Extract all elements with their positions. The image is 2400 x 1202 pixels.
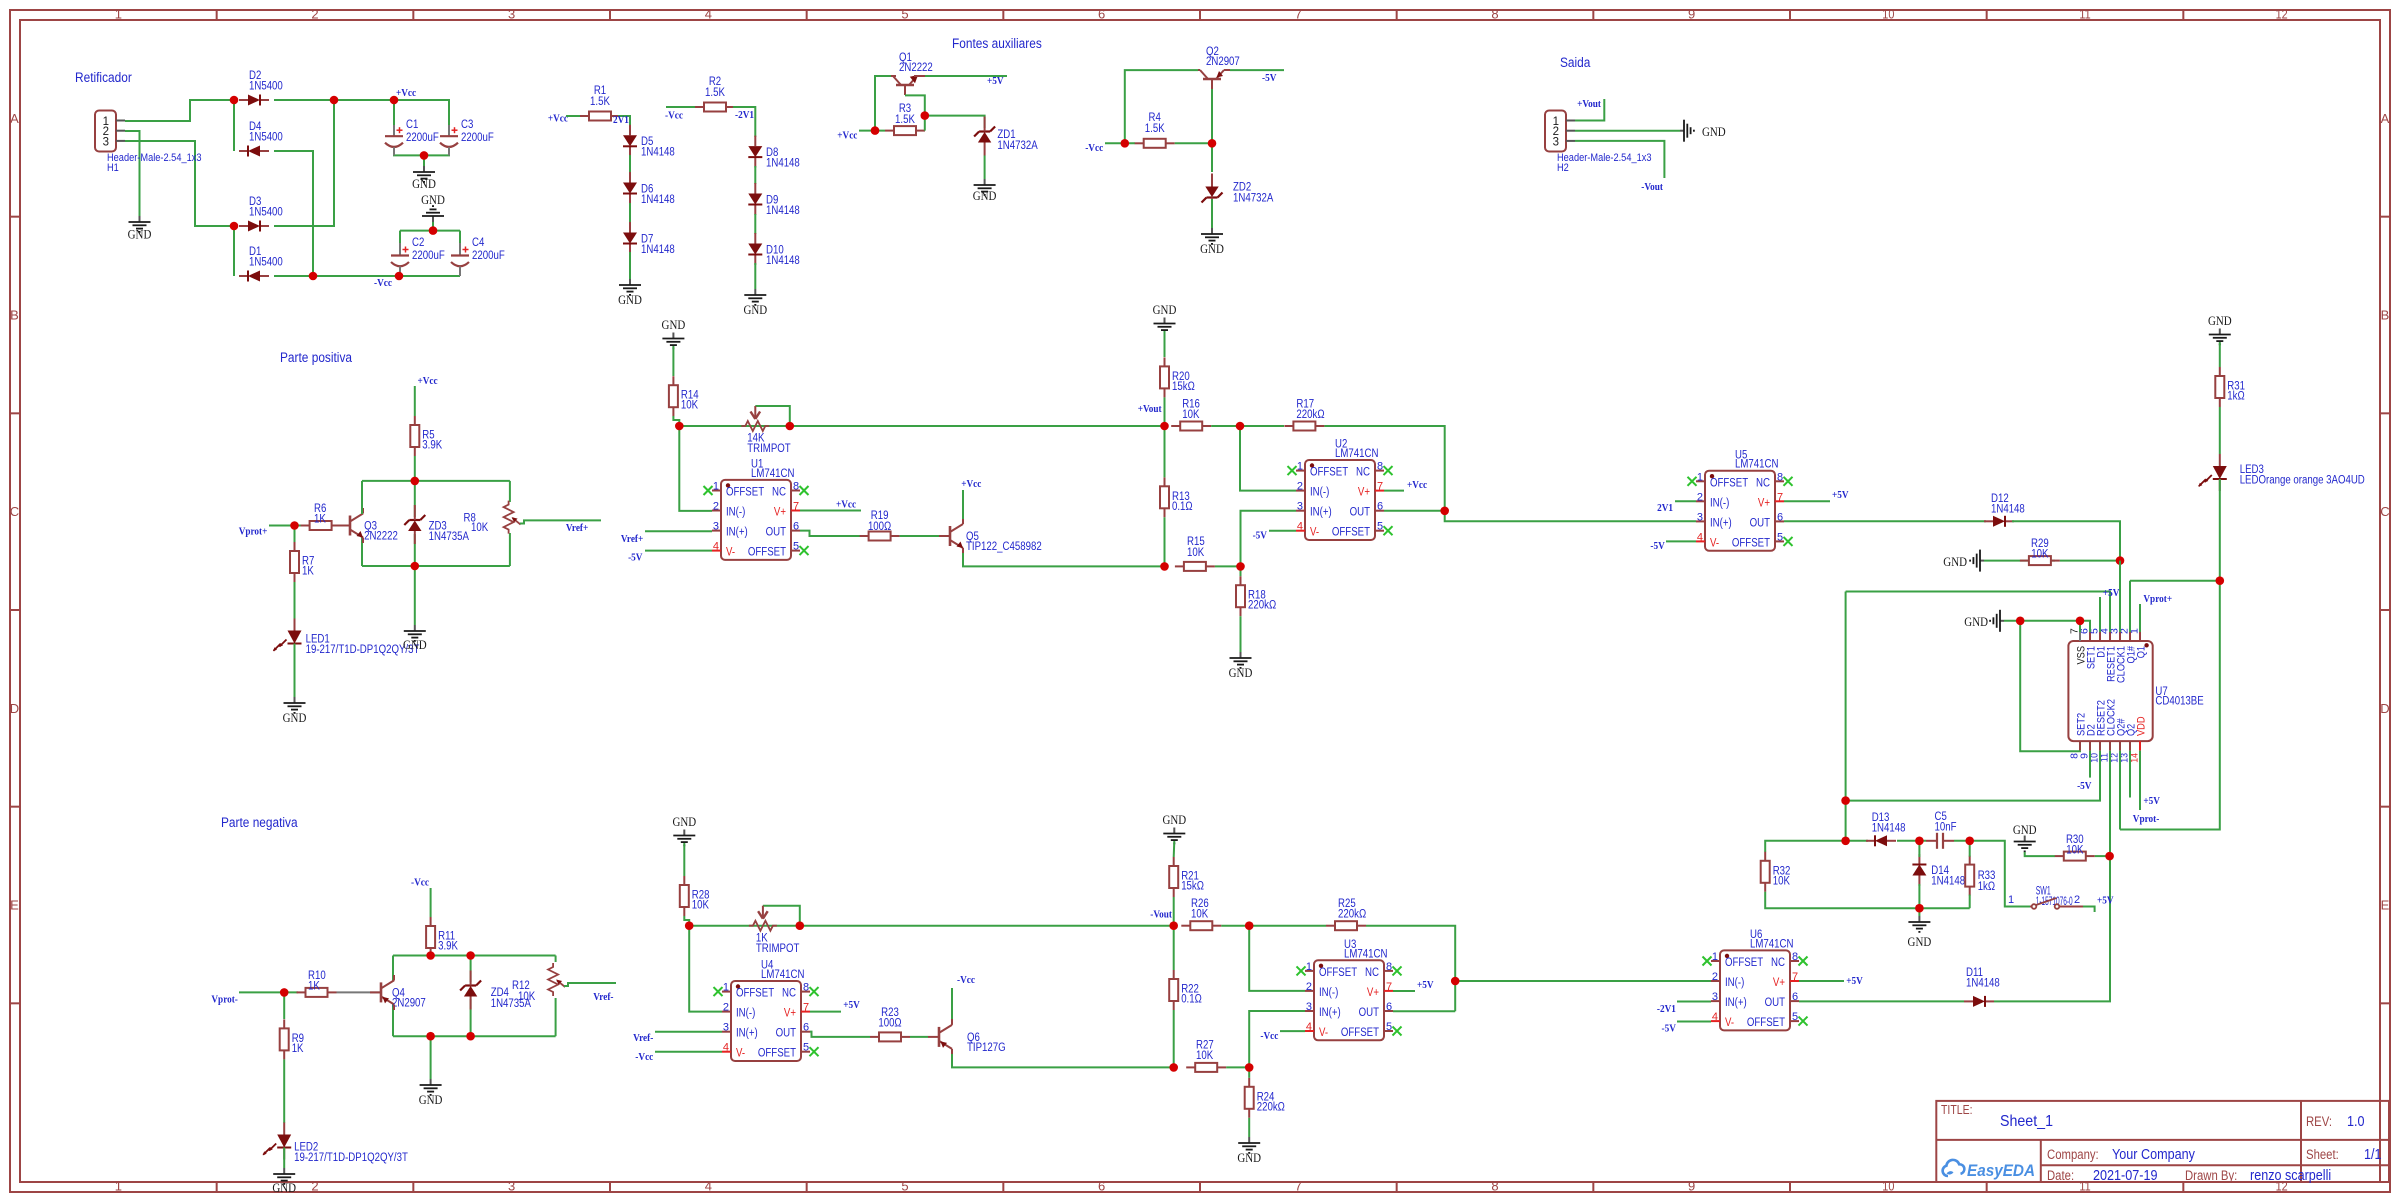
svg-text:2V1: 2V1 [613, 114, 629, 126]
diode D3 [239, 225, 248, 227]
wire H2 pin2 to GND [1575, 130, 1680, 132]
op-amp U6 [1720, 950, 1790, 1030]
svg-text:6: 6 [1792, 991, 1798, 1003]
wire R31 to LED3 [2219, 407, 2221, 454]
svg-text:GND: GND [743, 302, 767, 317]
svg-text:TITLE:: TITLE: [1941, 1103, 1973, 1117]
svg-text:-2V1: -2V1 [1657, 1003, 1676, 1015]
svg-text:CD4013BE: CD4013BE [2155, 696, 2204, 708]
svg-text:D: D [2380, 701, 2389, 716]
svg-text:1N5400: 1N5400 [249, 81, 283, 93]
resistor R23 [870, 1036, 879, 1038]
wire R15 right to R18 node [1215, 565, 1241, 567]
wire R13 legs [1164, 426, 1166, 477]
svg-text:-Vcc: -Vcc [1085, 142, 1103, 154]
bottom rail parte positiva [362, 565, 510, 567]
svg-text:B: B [2381, 308, 2390, 323]
svg-text:6: 6 [1098, 7, 1105, 22]
capacitor C1 [393, 125, 395, 136]
svg-text:2200uF: 2200uF [461, 132, 494, 144]
transistor Q4 [380, 982, 383, 1002]
diode D11 [1964, 1000, 1973, 1002]
svg-text:OUT: OUT [1350, 507, 1370, 519]
wire D3 anode to D1 cathode [233, 226, 235, 276]
svg-text:VDD: VDD [2136, 716, 2148, 736]
transistor Q2 [1203, 78, 1221, 81]
svg-text:1N4148: 1N4148 [766, 205, 800, 217]
svg-text:4: 4 [1297, 521, 1303, 533]
diode D9 [754, 183, 756, 194]
wire R18 legs [1240, 566, 1242, 576]
resistor R31 [2219, 367, 2221, 376]
svg-text:IN(+): IN(+) [736, 1028, 758, 1040]
junction dots U7 area [2076, 617, 2085, 626]
svg-text:V+: V+ [1367, 987, 1379, 999]
wire D1 anode to -Vcc rail [274, 275, 460, 277]
svg-text:2: 2 [1697, 491, 1703, 503]
diode D2 [239, 99, 248, 101]
svg-text:10K: 10K [1182, 409, 1199, 421]
wire R11 to top rail [430, 956, 432, 958]
transistor Q3 [349, 516, 352, 536]
svg-text:+5V: +5V [1832, 489, 1849, 501]
svg-text:OUT: OUT [766, 527, 786, 539]
svg-text:10K: 10K [1187, 547, 1204, 559]
svg-text:1N5400: 1N5400 [249, 257, 283, 269]
svg-text:1: 1 [1306, 961, 1312, 973]
transistor Q1 [896, 84, 914, 87]
svg-text:8: 8 [1377, 461, 1383, 473]
svg-text:GND: GND [421, 192, 445, 207]
wire R26 to R25 [1221, 925, 1326, 927]
svg-text:OFFSET: OFFSET [1710, 477, 1748, 489]
svg-text:IN(-): IN(-) [1319, 987, 1338, 999]
svg-text:100Ω: 100Ω [868, 521, 892, 533]
top rail parte negativa [393, 955, 556, 957]
svg-text:19-217/T1D-DP1Q2QY/3T: 19-217/T1D-DP1Q2QY/3T [294, 1152, 408, 1164]
diode D14 [1918, 854, 1920, 865]
wire C1 C3 top rail [394, 100, 449, 125]
wire D9 to D10 [754, 214, 756, 234]
wire node to ZD1 [925, 116, 985, 128]
transistor Q6 [938, 1027, 941, 1047]
svg-text:5: 5 [1377, 521, 1383, 533]
svg-text:OFFSET: OFFSET [1332, 527, 1370, 539]
wire D7 to GND [629, 252, 631, 279]
svg-text:C: C [10, 504, 19, 519]
svg-text:A: A [2381, 111, 2390, 126]
svg-text:Retificador: Retificador [75, 70, 132, 85]
resistor R9 [283, 1019, 285, 1028]
svg-text:10: 10 [1882, 7, 1894, 22]
svg-text:1N5400: 1N5400 [249, 207, 283, 219]
resistor R6 [301, 525, 310, 527]
wire H2 pin3 to -Vout [1575, 141, 1664, 178]
svg-text:2021-07-19: 2021-07-19 [2093, 1167, 2158, 1184]
svg-text:V+: V+ [784, 1008, 796, 1020]
svg-text:1.0: 1.0 [2347, 1113, 2365, 1130]
wire R12 wiper to Vref- [564, 983, 616, 986]
svg-text:IN(+): IN(+) [1725, 997, 1747, 1009]
svg-text:5: 5 [901, 1179, 908, 1194]
resistor R27 [1186, 1066, 1195, 1068]
svg-text:1N4148: 1N4148 [641, 244, 675, 256]
junction dots Q2 area [1121, 139, 1130, 148]
svg-text:TIP127G: TIP127G [967, 1042, 1006, 1054]
wire C5 to R33 node and SW1 corner [1954, 841, 2030, 907]
wire U2 pin3 riser [1241, 511, 1297, 567]
svg-text:1K: 1K [314, 514, 326, 526]
bottom rail parte negativa [393, 1035, 556, 1037]
svg-text:10K: 10K [1196, 1050, 1213, 1062]
junction dots parte positiva [290, 521, 299, 530]
svg-text:Vprot+: Vprot+ [2143, 593, 2172, 605]
svg-text:GND: GND [1702, 124, 1726, 139]
svg-text:220kΩ: 220kΩ [1338, 909, 1367, 921]
svg-text:4: 4 [1697, 531, 1703, 543]
svg-text:IN(-): IN(-) [736, 1008, 755, 1020]
svg-text:OFFSET: OFFSET [1310, 467, 1348, 479]
left legs Q4 [392, 956, 394, 982]
wire R3 right to node [924, 116, 926, 131]
wire C2 C4 top rail [400, 230, 460, 232]
svg-text:220kΩ: 220kΩ [1248, 600, 1277, 612]
wire Q5 emitter down to row [962, 548, 964, 553]
svg-text:-2V1: -2V1 [735, 109, 754, 121]
svg-text:9: 9 [1688, 7, 1695, 22]
ground below D14 [1918, 908, 1920, 916]
wire R8 wiper to Vref+ [520, 520, 601, 523]
svg-text:8: 8 [1386, 961, 1392, 973]
svg-text:GND: GND [672, 814, 696, 829]
svg-text:-Vout: -Vout [1641, 181, 1663, 193]
wire U2 pin2 riser [1240, 426, 1296, 491]
zener ZD1 [979, 130, 990, 132]
svg-text:10K: 10K [1773, 875, 1790, 887]
wire R17 to feedback corner [1324, 426, 1444, 511]
wire ZD2 to GND [1211, 199, 1213, 228]
wire D13 row [1846, 840, 1868, 842]
svg-text:+Vcc: +Vcc [961, 478, 981, 490]
svg-text:2N2907: 2N2907 [392, 998, 426, 1010]
wire D5 to D6 [629, 155, 631, 173]
trimpot 14K [741, 421, 769, 431]
wire U1 pin2 riser [679, 426, 712, 511]
wire Q1 emitter to +5V [925, 75, 1007, 77]
header H2 [1545, 111, 1566, 152]
svg-text:OFFSET: OFFSET [1732, 537, 1770, 549]
svg-text:1.5K: 1.5K [590, 96, 610, 108]
wire VSS stub [2079, 621, 2081, 632]
svg-text:GND: GND [403, 637, 427, 652]
resistor R25 [1326, 925, 1335, 927]
ground parte positiva [414, 625, 416, 631]
svg-text:4: 4 [713, 541, 719, 553]
svg-text:OFFSET: OFFSET [1319, 967, 1357, 979]
wire ZD1 to GND [984, 156, 986, 180]
wire Q1# riser [2129, 581, 2131, 632]
resistor R20 [1164, 357, 1166, 366]
svg-text:OUT: OUT [776, 1028, 796, 1040]
wire U3 pin3 riser [1249, 1011, 1305, 1067]
wire U4 OUT to R23 [810, 1032, 870, 1037]
svg-text:7: 7 [1792, 971, 1798, 983]
svg-text:renzo scarpelli: renzo scarpelli [2250, 1167, 2331, 1184]
svg-text:GND: GND [1943, 554, 1967, 569]
wire D8 to D9 [754, 166, 756, 184]
resistor R33 [1969, 856, 1971, 865]
svg-text:GND: GND [2208, 313, 2232, 328]
svg-text:6: 6 [1777, 511, 1783, 523]
svg-text:IN(+): IN(+) [1310, 507, 1332, 519]
svg-text:11: 11 [2079, 7, 2090, 22]
svg-text:+5V: +5V [1846, 975, 1863, 987]
svg-text:1N4148: 1N4148 [766, 255, 800, 267]
title block [1936, 1101, 2389, 1182]
svg-text:1.5K: 1.5K [705, 87, 725, 99]
svg-text:1kΩ: 1kΩ [1978, 881, 1996, 893]
resistor R7 [294, 542, 296, 551]
svg-text:5: 5 [793, 541, 799, 553]
svg-text:Vref+: Vref+ [621, 533, 643, 545]
svg-text:+5V: +5V [1417, 979, 1434, 991]
svg-text:8: 8 [793, 481, 799, 493]
wire D12 to CLOCK1 node [2012, 521, 2120, 560]
wire GND to R29 [1984, 560, 2055, 562]
svg-text:C: C [2380, 504, 2389, 519]
svg-text:10nF: 10nF [1935, 822, 1957, 834]
wire U6 pin3 [1677, 1001, 1711, 1003]
svg-text:OFFSET: OFFSET [1341, 1027, 1379, 1039]
svg-text:3: 3 [1306, 1001, 1312, 1013]
svg-text:Drawn By:: Drawn By: [2185, 1168, 2237, 1183]
svg-text:2200uF: 2200uF [406, 132, 439, 144]
svg-text:2: 2 [311, 7, 318, 22]
svg-text:2V1: 2V1 [1657, 502, 1673, 514]
svg-text:+Vcc: +Vcc [418, 375, 438, 387]
wire R1 to 2V1 chain [618, 116, 630, 126]
svg-text:GND: GND [1153, 302, 1177, 317]
wire R30 to CLOCK2 node [2095, 855, 2110, 857]
zener ZD4 [465, 984, 476, 986]
diode D4 [239, 150, 248, 152]
svg-text:3: 3 [1697, 511, 1703, 523]
svg-text:V-: V- [1319, 1027, 1328, 1039]
resistor R32 [1764, 852, 1766, 861]
svg-text:5: 5 [1777, 531, 1783, 543]
wire R24 legs [1248, 1067, 1250, 1077]
svg-text:A: A [10, 111, 19, 126]
op-amp U2 [1305, 460, 1375, 540]
wire D4 anode to D1 anode [274, 151, 313, 276]
svg-text:GND: GND [1200, 241, 1224, 256]
svg-text:6: 6 [1377, 501, 1383, 513]
svg-text:E: E [10, 898, 19, 913]
svg-text:Header-Male-2.54_1x3: Header-Male-2.54_1x3 [107, 152, 202, 164]
resistor R3 [885, 130, 894, 132]
svg-text:NC: NC [1756, 477, 1770, 489]
wire R33 legs [1969, 841, 1971, 857]
svg-text:NC: NC [1365, 967, 1379, 979]
svg-text:+Vcc: +Vcc [836, 499, 856, 511]
wire GND to VSS and SET1 [2004, 621, 2090, 632]
ground LED2 [283, 1168, 285, 1174]
wire Q2 to +5V [2129, 751, 2131, 798]
wire D3 cathode riser to +Vcc rail [274, 100, 334, 226]
svg-text:GND: GND [1908, 934, 1932, 949]
zener ZD3 [409, 519, 420, 521]
ground ZD2 [1211, 228, 1213, 234]
svg-text:2N2222: 2N2222 [899, 62, 933, 74]
svg-text:NC: NC [782, 988, 796, 1000]
resistor R26 [1181, 925, 1190, 927]
svg-text:1N4148: 1N4148 [641, 147, 675, 159]
wire U6 OUT to D11 [1799, 1000, 1964, 1002]
svg-text:GND: GND [412, 176, 436, 191]
svg-text:IN(-): IN(-) [1310, 487, 1329, 499]
svg-text:7: 7 [1295, 1179, 1302, 1194]
wire Vprot+ to R6 [269, 525, 302, 527]
junction dots Q1 area [871, 126, 880, 135]
wire CLOCK1 riser [2119, 561, 2121, 632]
wire R19 to Q5 base [900, 535, 939, 537]
wire U5 pin2 [1675, 500, 1696, 502]
junction dots rectifier [230, 96, 239, 105]
wire U5 OUT to D12 [1784, 520, 1986, 522]
svg-text:2: 2 [713, 501, 719, 513]
svg-text:1.5K: 1.5K [895, 114, 915, 126]
svg-text:-Vcc: -Vcc [957, 974, 975, 986]
svg-text:2N2907: 2N2907 [1206, 56, 1240, 68]
svg-text:3: 3 [723, 1022, 729, 1034]
svg-text:3: 3 [1553, 136, 1559, 148]
svg-text:6: 6 [1098, 1179, 1105, 1194]
svg-text:-Vcc: -Vcc [665, 110, 683, 122]
resistor R4 [1135, 142, 1144, 144]
wire R28 to rail jog [684, 916, 689, 926]
svg-text:1N5400: 1N5400 [249, 132, 283, 144]
diode D7 [629, 222, 631, 233]
resistor R22 [1173, 970, 1175, 979]
resistor R1 [580, 115, 589, 117]
LED LED1 [294, 619, 296, 631]
resistor R30 [2055, 855, 2064, 857]
resistor R11 [430, 917, 432, 926]
wire D6 to D7 [629, 203, 631, 223]
svg-text:8: 8 [1491, 1179, 1498, 1194]
svg-text:4: 4 [1712, 1011, 1718, 1023]
diode D8 [754, 136, 756, 147]
svg-text:OFFSET: OFFSET [736, 988, 774, 1000]
zener ZD4 legs [470, 956, 472, 983]
svg-text:3.9K: 3.9K [422, 440, 442, 452]
svg-text:2: 2 [311, 1179, 318, 1194]
svg-text:Q1: Q1 [2136, 646, 2148, 658]
wire U1 OUT to R19 [800, 531, 860, 536]
svg-text:3: 3 [508, 7, 515, 22]
wire R5 to top rail [414, 456, 416, 481]
wire CLOCK2 to R30 node and D11 row [2000, 751, 2110, 1002]
svg-text:1: 1 [1297, 461, 1303, 473]
wire H1 pin3 to D3 anode [125, 141, 234, 226]
svg-text:+5V: +5V [2103, 587, 2120, 599]
resistor R13 [1164, 477, 1166, 486]
svg-text:1N4148: 1N4148 [641, 194, 675, 206]
right legs R8 [509, 481, 511, 502]
svg-text:V-: V- [1310, 527, 1319, 539]
transistor Q5 [949, 526, 952, 546]
svg-text:15kΩ: 15kΩ [1172, 381, 1195, 393]
svg-text:1N4148: 1N4148 [1872, 823, 1906, 835]
svg-text:OFFSET: OFFSET [1725, 957, 1763, 969]
wire U3 pin2 riser [1249, 926, 1305, 991]
wire H1 pin1 to D2 anode [125, 100, 234, 121]
svg-text:5: 5 [803, 1042, 809, 1054]
svg-text:V-: V- [1725, 1017, 1734, 1029]
wire U3 pin7 [1393, 990, 1415, 992]
wire R32 to bottom rail [1765, 892, 1970, 908]
wire R10 to Q4 base [337, 991, 382, 993]
resistor R16 [1171, 425, 1180, 427]
wire -Vcc to R2 [666, 106, 697, 108]
op-amp U3 [1314, 960, 1384, 1040]
svg-text:V-: V- [726, 547, 735, 559]
wire U3 pin4 [1280, 1030, 1305, 1032]
svg-text:Vref+: Vref+ [566, 522, 588, 534]
svg-text:2200uF: 2200uF [412, 250, 445, 262]
svg-text:1: 1 [115, 7, 122, 22]
svg-text:V+: V+ [1358, 487, 1370, 499]
svg-text:V-: V- [1710, 537, 1719, 549]
wire R25 to feedback corner [1366, 926, 1455, 1012]
capacitor C5 [1926, 840, 1937, 842]
junction dots U4 rail [685, 921, 694, 930]
svg-text:B: B [10, 308, 19, 323]
svg-text:GND: GND [973, 188, 997, 203]
wire U4 pin2 riser [689, 926, 722, 1012]
svg-text:LM741CN: LM741CN [761, 969, 805, 981]
top rail parte positiva [362, 480, 510, 482]
svg-text:10K: 10K [2031, 549, 2048, 561]
svg-text:10K: 10K [681, 400, 698, 412]
svg-text:TRIMPOT: TRIMPOT [747, 443, 791, 455]
svg-text:0.1Ω: 0.1Ω [1172, 501, 1193, 513]
wire +Vcc to R5 [414, 386, 416, 416]
svg-text:LM741CN: LM741CN [1335, 448, 1379, 460]
svg-text:2200uF: 2200uF [472, 250, 505, 262]
svg-text:C2: C2 [412, 237, 424, 249]
wire +Vcc to R1 [566, 115, 582, 117]
svg-text:OUT: OUT [1359, 1007, 1379, 1019]
ground sideways H2 [1680, 130, 1684, 132]
resistor R24 [1248, 1078, 1250, 1087]
wire D11 to CLOCK2 column [1994, 1000, 2000, 1002]
svg-text:D: D [10, 701, 19, 716]
svg-text:Vref-: Vref- [593, 991, 613, 1003]
svg-text:10K: 10K [471, 522, 488, 534]
svg-text:-Vout: -Vout [1150, 909, 1172, 921]
svg-text:5: 5 [1792, 1011, 1798, 1023]
junction dots parte negativa [280, 988, 289, 997]
wire D1 stub up [2099, 597, 2101, 632]
svg-text:IN(+): IN(+) [726, 527, 748, 539]
svg-text:10: 10 [1882, 1179, 1894, 1194]
wire R4 to ZD2 [1175, 143, 1212, 172]
diode D6 [629, 172, 631, 183]
wire U2 pin4 [1269, 530, 1296, 532]
svg-text:3: 3 [103, 136, 109, 148]
svg-text:+Vout: +Vout [1138, 403, 1162, 415]
